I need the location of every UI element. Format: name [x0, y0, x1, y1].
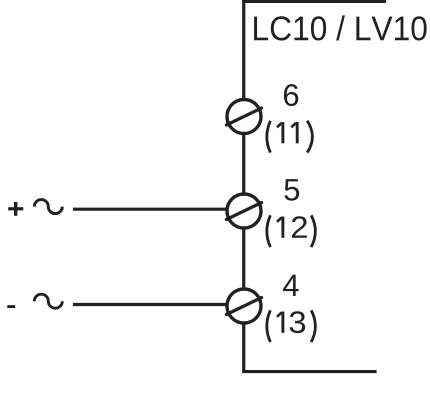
- label: terminal 6 alt number (11): [267, 121, 313, 153]
- label: terminal number 5: [284, 179, 299, 201]
- wire: device outline bottom edge: [242, 370, 376, 373]
- wire: terminal 5 to terminal 4: [242, 228, 245, 290]
- terminal 6: screw terminal circle: [227, 100, 261, 134]
- minus polarity symbol: [7, 305, 15, 308]
- wire: terminal 4 down to bottom edge: [242, 323, 245, 374]
- wire: device outline left vertical into terminal 6: [242, 0, 245, 100]
- wire: minus input lead to terminal 4: [73, 303, 228, 306]
- label: terminal number 4: [283, 275, 299, 296]
- label: terminal 4 alt number (13): [267, 310, 316, 342]
- terminal 4: screw terminal circle: [227, 289, 261, 323]
- wire: plus input lead to terminal 5: [73, 208, 228, 211]
- label: terminal 5 alt number (12): [267, 215, 316, 247]
- terminal 4: screw slash: [226, 298, 261, 315]
- terminal 6: screw slash: [226, 108, 261, 125]
- terminal 5: screw terminal circle: [227, 194, 261, 228]
- wire: device outline top edge: [242, 0, 386, 3]
- wire: terminal 6 to terminal 5: [242, 133, 245, 194]
- plus polarity symbol: [8, 202, 23, 216]
- terminal 5: screw slash: [226, 203, 261, 220]
- label: terminal number 6: [284, 84, 298, 106]
- AC sine symbol (minus row): [34, 294, 62, 308]
- label: device name LC10 / LV10: [254, 15, 427, 40]
- AC sine symbol (plus row): [34, 200, 62, 214]
